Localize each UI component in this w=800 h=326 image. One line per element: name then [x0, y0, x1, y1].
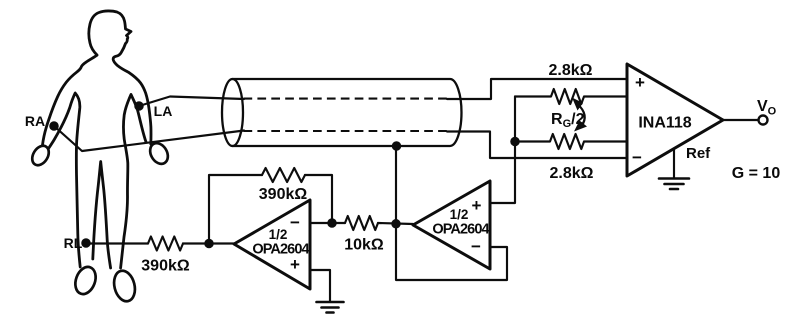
wire LA to cable	[139, 97, 244, 107]
wire U2 output to cable shield	[395, 146, 397, 224]
wire Ref to ground	[673, 149, 675, 178]
svg-text:1/2: 1/2	[450, 207, 469, 222]
svg-text:RG/2: RG/2	[551, 111, 585, 130]
right foot	[111, 269, 138, 304]
svg-text:−: −	[632, 148, 642, 167]
wire RG center tap	[490, 97, 515, 204]
svg-text:LA: LA	[154, 103, 173, 119]
RG adjust arrow	[578, 104, 585, 126]
svg-text:INA118: INA118	[638, 115, 691, 132]
wire U1 feedback	[209, 175, 332, 244]
svg-text:10kΩ: 10kΩ	[344, 237, 384, 254]
wire RA to cable	[54, 126, 244, 151]
electrode LA	[135, 102, 142, 109]
electrode RA	[50, 122, 57, 129]
svg-text:2.8kΩ: 2.8kΩ	[550, 165, 594, 182]
left hand	[29, 143, 52, 168]
right hand	[147, 140, 172, 167]
svg-text:−: −	[290, 213, 300, 232]
node RG center tap	[511, 138, 518, 145]
wire bottom conductor to INA118 - input	[447, 132, 627, 159]
svg-text:+: +	[472, 196, 482, 215]
resistor 390k feedback	[262, 168, 305, 182]
svg-text:RA: RA	[25, 113, 45, 129]
svg-text:+: +	[635, 73, 645, 92]
ground U1	[317, 302, 344, 313]
svg-text:VO: VO	[757, 98, 777, 118]
node shield connection	[393, 142, 400, 149]
svg-text:390kΩ: 390kΩ	[141, 258, 190, 275]
wire RL resistor to U1 output	[183, 242, 234, 244]
wire RL to resistor	[86, 242, 148, 244]
svg-text:RL: RL	[64, 235, 83, 251]
body figure outline	[43, 11, 152, 268]
wire output	[723, 119, 759, 121]
svg-text:OPA2604: OPA2604	[252, 242, 309, 258]
in-amp INA118	[627, 64, 723, 176]
wire U2 unity feedback loop	[396, 224, 507, 280]
op-amp U1 (1/2 OPA2604, RL drive)	[234, 200, 310, 289]
svg-text:+: +	[290, 255, 300, 274]
svg-text:OPA2604: OPA2604	[432, 222, 489, 238]
resistor 390k RL drive	[148, 237, 183, 251]
wire U1 inverting input row / 10k	[310, 223, 413, 224]
resistor RG/2 top (2.8k)	[515, 89, 627, 104]
node U1 - input	[328, 219, 335, 226]
svg-text:Ref: Ref	[686, 145, 711, 162]
svg-text:−: −	[471, 237, 481, 256]
resistor RG/2 bottom (2.8k)	[515, 134, 627, 149]
cable inner conductor top (dashed)	[244, 98, 448, 100]
op-amp U2 (1/2 OPA2604, shield buffer)	[413, 181, 490, 269]
wire U1 + input to ground	[310, 270, 330, 301]
svg-text:1/2: 1/2	[269, 227, 288, 242]
left foot	[72, 264, 99, 297]
wire top conductor to INA118 + input	[447, 79, 627, 99]
cable shield cylinder	[222, 79, 243, 146]
cable inner conductor bottom (dashed)	[244, 130, 448, 132]
resistor 10k	[345, 216, 378, 230]
ground INA118 Ref	[659, 179, 689, 190]
svg-text:2.8kΩ: 2.8kΩ	[549, 62, 593, 79]
electrode RL	[82, 239, 89, 246]
svg-text:G = 10: G = 10	[732, 165, 781, 182]
node U2 output junction	[392, 220, 399, 227]
node U1 output junction	[205, 240, 212, 247]
svg-text:390kΩ: 390kΩ	[259, 186, 308, 203]
output terminal Vo	[759, 116, 768, 125]
